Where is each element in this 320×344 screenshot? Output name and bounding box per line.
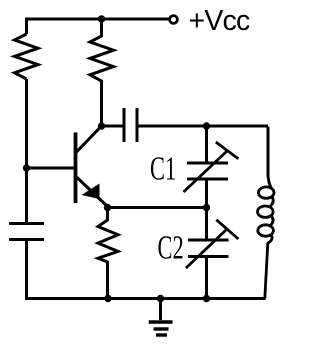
transistor Q1 emitter arrow (82, 184, 100, 200)
node R3 bottom junction (104, 295, 111, 302)
wire C2 top lead (205, 208, 208, 241)
wire bottom rail (25, 297, 266, 300)
wire left rail upper (25, 79, 28, 168)
inductor L1 entry strand (268, 175, 272, 189)
capacitor C2 trimmer arrow (186, 220, 238, 268)
capacitor C1 trimmer arrow (184, 142, 239, 192)
wire left rail lower (25, 168, 28, 224)
wire top rail (27, 19, 169, 34)
terminal +Vcc open circle (170, 16, 178, 24)
capacitor bypass left plate pair (9, 224, 44, 240)
inductor L1 loop 3 (258, 225, 274, 236)
capacitor C1 plate pair (187, 163, 228, 179)
node collector junction (98, 122, 105, 129)
wire collector to coupling cap (102, 125, 123, 128)
ground (149, 299, 173, 336)
node emitter junction (104, 204, 111, 211)
wire left rail bottom (25, 240, 28, 299)
wire C1 top lead (205, 126, 208, 163)
wire right rail upper (267, 127, 270, 177)
node top R2 junction (98, 15, 105, 22)
capacitor coupling plate pair (124, 108, 137, 142)
node tank mid junction (203, 204, 210, 211)
transistor Q1 emitter lead (77, 177, 108, 207)
node ground junction (157, 295, 164, 302)
svg-text:C1: C1 (150, 150, 176, 188)
wire C2 bottom lead (205, 257, 208, 299)
wire emitter to tank mid (108, 206, 207, 209)
resistor R3 (98, 208, 118, 299)
svg-text:C2: C2 (158, 229, 184, 267)
transistor Q1 base bar (74, 133, 78, 204)
inductor L1 loop 2 (258, 206, 274, 217)
resistor R1 (15, 34, 39, 79)
inductor L1 loop 1 (258, 187, 274, 198)
wire C1 bottom lead (205, 179, 208, 208)
node C2 bottom junction (203, 295, 210, 302)
inductor L1 strand 2-3 (270, 216, 273, 226)
resistor R2 (90, 19, 114, 126)
wire base (27, 167, 76, 170)
transistor Q1 collector lead (76, 126, 102, 153)
node base junction (23, 164, 30, 171)
svg-text:+Vcc: +Vcc (189, 5, 251, 37)
node tank top junction (203, 122, 210, 129)
inductor L1 exit strand (265, 235, 272, 299)
inductor L1 strand 1-2 (270, 197, 273, 207)
wire coupling cap to right rail (139, 125, 269, 128)
capacitor C2 plate pair (188, 240, 229, 257)
